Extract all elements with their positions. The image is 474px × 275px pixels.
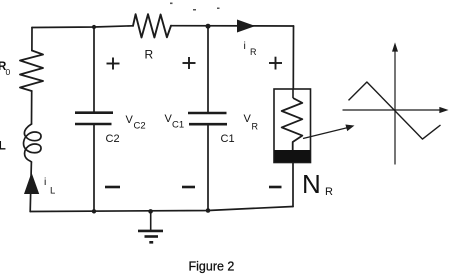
svg-text:R: R [250, 47, 257, 57]
node dot top C2 [92, 25, 96, 29]
plus sign vR [269, 57, 282, 70]
svg-text:L: L [50, 186, 55, 197]
wire bottom horizontal [30, 207, 293, 212]
wire left vertical upper [31, 28, 33, 51]
graph horizontal axis [343, 108, 447, 112]
noise specks [170, 3, 220, 11]
svg-text:R: R [145, 48, 154, 62]
svg-text:R: R [252, 122, 259, 132]
graph piecewise-linear NR characteristic [349, 82, 441, 139]
minus sign vC1 [182, 186, 195, 189]
svg-text:i: i [44, 176, 46, 188]
plus sign vC2 [107, 58, 120, 70]
node dot bottom C2 [92, 209, 96, 213]
resistor R0 [20, 51, 43, 92]
current arrow iL [24, 173, 39, 195]
NR inner lead top [292, 89, 294, 98]
NR inner zigzag [282, 98, 303, 150]
capacitor C1 [188, 113, 227, 124]
NR black band [275, 150, 311, 162]
wire left vertical middle [31, 91, 33, 124]
wire top-left horizontal segment [32, 26, 133, 28]
inductor L [24, 124, 41, 162]
svg-text:C2: C2 [134, 121, 146, 132]
graph vertical axis [393, 45, 397, 165]
svg-text:V: V [126, 114, 134, 126]
svg-text:R: R [325, 186, 333, 198]
svg-text:i: i [244, 40, 246, 52]
node dot bottom ground [148, 209, 153, 214]
svg-text:0: 0 [6, 67, 11, 77]
capacitor C2 [75, 113, 113, 124]
resistor R [133, 14, 171, 37]
wire top-right horizontal segment [171, 25, 294, 27]
callout arrow to graph [303, 125, 353, 138]
wire C1 branch upper [207, 26, 209, 113]
svg-text:C1: C1 [172, 120, 184, 131]
svg-text:L: L [0, 139, 6, 153]
wire left vertical lower [30, 162, 31, 212]
wire right branch vertical [292, 26, 294, 89]
minus sign vC2 [105, 186, 120, 189]
svg-text:C1: C1 [221, 133, 235, 145]
node dot top C1 [206, 24, 211, 29]
wire C1 branch lower [207, 124, 209, 211]
wire C2 branch upper [93, 27, 95, 113]
svg-text:Figure 2: Figure 2 [189, 260, 235, 274]
nonlinear resistor NR box [274, 89, 311, 163]
svg-text:C2: C2 [106, 133, 120, 145]
minus sign vR [269, 186, 282, 189]
current arrow iR [237, 20, 256, 33]
plus sign vC1 [183, 57, 196, 69]
wire NR branch lower [292, 163, 294, 207]
ground [138, 211, 163, 242]
node dot bottom C1 [206, 208, 211, 213]
svg-text:V: V [244, 113, 252, 125]
svg-text:N: N [302, 169, 321, 199]
wire C2 branch lower [93, 124, 95, 211]
